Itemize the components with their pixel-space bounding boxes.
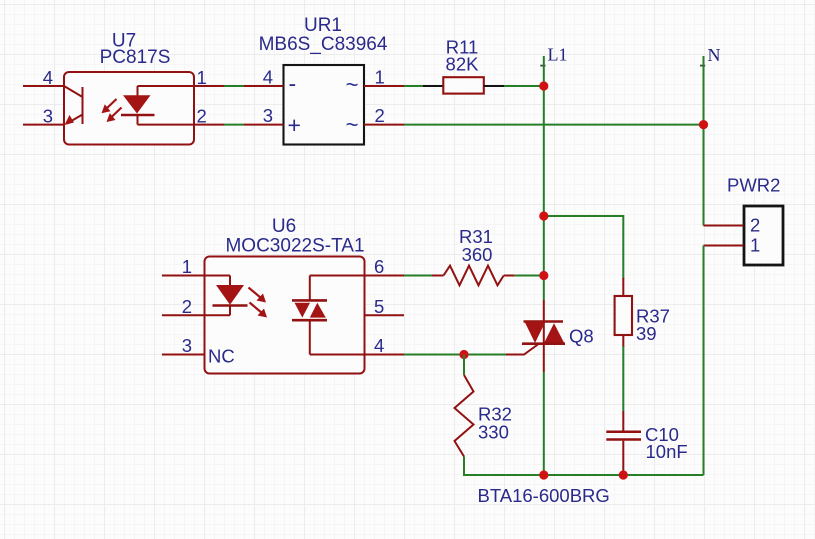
R37 top lead <box>622 278 624 296</box>
bridge rectifier UR1 <box>259 15 388 145</box>
U7 light arrows <box>102 99 122 122</box>
wire R31 to L1 <box>515 275 544 277</box>
svg-text:10nF: 10nF <box>646 441 688 462</box>
svg-text:330: 330 <box>478 422 509 443</box>
connector PWR2 <box>727 175 783 266</box>
R11 left lead <box>423 85 443 87</box>
UR1 pin 4 <box>244 67 284 88</box>
svg-text:L1: L1 <box>548 45 568 65</box>
wire N vertical <box>703 56 705 226</box>
svg-text:MB6S_C83964: MB6S_C83964 <box>259 34 388 55</box>
junction R31/L1 <box>539 271 548 280</box>
wire U7.1 to UR1.4 <box>224 85 244 87</box>
svg-text:2: 2 <box>750 215 760 236</box>
svg-text:MOC3022S-TA1: MOC3022S-TA1 <box>225 236 364 257</box>
wire U6.6 to R31 <box>404 275 432 277</box>
svg-text:PC817S: PC817S <box>100 47 171 68</box>
svg-text:4: 4 <box>263 67 273 88</box>
U7 pin 2 <box>194 106 224 127</box>
R11 right lead <box>484 85 504 87</box>
U7 LED <box>121 86 194 125</box>
triac Q8 <box>478 300 610 506</box>
svg-text:~: ~ <box>346 72 359 97</box>
U7 pin 3 <box>23 106 64 127</box>
wire Q8 bottom <box>543 372 545 475</box>
svg-text:3: 3 <box>43 106 53 127</box>
U6 LED <box>205 276 248 316</box>
U6 pin 5 <box>365 296 405 317</box>
svg-text:+: + <box>288 112 301 138</box>
junction L1/R11 <box>539 81 548 90</box>
resistor R31 <box>432 226 515 285</box>
optocoupler U7 <box>64 31 194 145</box>
wire L1 mid <box>543 216 545 300</box>
U7 phototransistor <box>64 86 83 125</box>
svg-text:NC: NC <box>208 346 235 367</box>
wire L1 branch to R37 <box>544 216 624 279</box>
wire U6.4 to gate <box>404 354 506 356</box>
svg-text:360: 360 <box>462 244 493 265</box>
svg-text:2: 2 <box>375 105 385 126</box>
svg-text:N: N <box>708 45 721 65</box>
svg-text:-: - <box>289 71 297 97</box>
svg-text:UR1: UR1 <box>304 15 342 36</box>
svg-text:39: 39 <box>636 323 657 344</box>
U7 pin 1 <box>194 67 224 88</box>
R37 bottom lead <box>622 335 624 347</box>
svg-text:1: 1 <box>750 235 760 256</box>
wire UR1.2 to N <box>404 124 704 126</box>
svg-text:5: 5 <box>374 296 384 317</box>
U6 light arrows <box>249 288 268 318</box>
wire gate to R32 <box>463 355 465 376</box>
node N <box>700 45 721 66</box>
svg-text:Q8: Q8 <box>569 326 594 347</box>
optotriac U6 <box>205 216 365 374</box>
U7 pin 4 <box>23 67 64 88</box>
svg-text:U6: U6 <box>272 216 296 237</box>
svg-text:82K: 82K <box>446 54 480 75</box>
svg-text:~: ~ <box>346 112 359 137</box>
wire L1 top <box>543 56 545 216</box>
junction L1 branch <box>539 211 548 220</box>
svg-text:1: 1 <box>182 256 192 277</box>
junction C10/rail <box>619 470 628 479</box>
PWR2 pin 1 <box>704 245 744 247</box>
svg-text:4: 4 <box>43 67 53 88</box>
svg-text:BTA16-600BRG: BTA16-600BRG <box>478 485 610 506</box>
node L1 <box>540 45 567 66</box>
wire UR1.1 to R11 <box>404 85 423 87</box>
resistor R32 <box>455 375 512 457</box>
PWR2 pin 2 <box>704 225 744 227</box>
svg-text:2: 2 <box>197 106 207 127</box>
U6 pin 2 <box>162 296 205 317</box>
junction N row2 <box>699 120 708 129</box>
svg-text:6: 6 <box>374 256 384 277</box>
wire bottom rail <box>463 474 704 476</box>
wire R37 to C10 <box>622 346 624 411</box>
capacitor C10 <box>606 411 687 475</box>
wire R11 to L1 <box>504 85 544 87</box>
U6 pin 6 <box>365 256 405 277</box>
UR1 pin 1 <box>364 67 404 88</box>
U6 diac <box>292 276 365 355</box>
U6 pin 3 <box>162 335 205 356</box>
svg-text:1: 1 <box>375 67 385 88</box>
svg-text:PWR2: PWR2 <box>727 175 780 196</box>
U6 pin 4 <box>365 335 405 356</box>
resistor R11 <box>443 37 484 94</box>
svg-text:3: 3 <box>263 105 273 126</box>
svg-text:2: 2 <box>182 296 192 317</box>
UR1 pin 2 <box>364 105 404 126</box>
wire R32 down <box>463 457 465 476</box>
wire U7.2 to UR1.3 <box>224 124 244 126</box>
junction Q8/rail <box>539 470 548 479</box>
svg-text:4: 4 <box>374 335 384 356</box>
wire PWR2.1 down <box>703 246 705 476</box>
UR1 pin 3 <box>244 105 284 126</box>
svg-text:1: 1 <box>197 67 207 88</box>
junction gate/R32 <box>459 350 468 359</box>
U6 pin 1 <box>162 256 205 277</box>
resistor R37 <box>615 296 670 344</box>
svg-text:3: 3 <box>182 335 192 356</box>
